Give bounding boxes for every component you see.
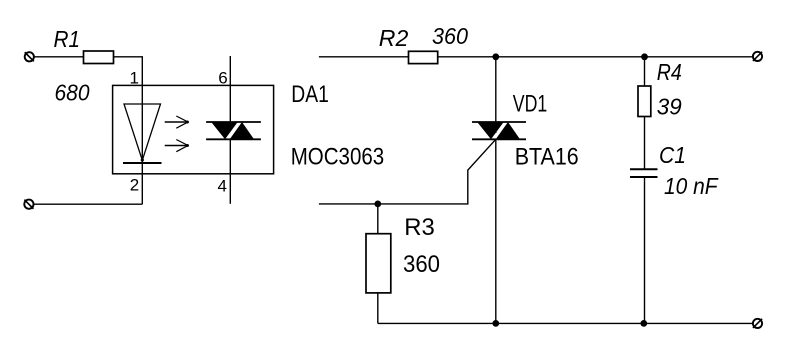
svg-text:R4: R4 (657, 59, 682, 85)
opto photo-triac (206, 120, 261, 141)
pin 4 wire (229, 139, 231, 204)
wire X1 to R1 (34, 56, 84, 58)
optocoupler DA1 box (113, 85, 274, 173)
LED D triangle (124, 104, 161, 160)
wire C1 to bottom rail (644, 177, 646, 323)
svg-text:680: 680 (55, 80, 90, 106)
svg-text:6: 6 (218, 69, 227, 88)
light arrow 1 (165, 116, 189, 128)
svg-text:R3: R3 (404, 214, 435, 241)
junction node (R3 top / gate) (374, 201, 381, 208)
terminal X2 (bottom-left) (24, 200, 33, 209)
triac VD1 (472, 120, 526, 141)
wire VD1 vertical (495, 57, 497, 133)
svg-text:4: 4 (218, 176, 227, 195)
top wire R2 to terminal (438, 56, 753, 58)
gate wire of VD1 (319, 139, 496, 204)
svg-text:360: 360 (403, 251, 440, 278)
terminal X1 (top-left) (25, 52, 34, 61)
resistor R2 (409, 51, 438, 63)
svg-text:MOC3063: MOC3063 (291, 143, 385, 170)
svg-text:R1: R1 (54, 26, 81, 52)
svg-text:39: 39 (657, 93, 682, 119)
capacitor C1 (630, 169, 658, 177)
junction node (VD1 top) (492, 53, 499, 60)
junction node (R4 top) (641, 53, 648, 60)
bottom rail (378, 322, 753, 324)
svg-text:2: 2 (130, 176, 139, 195)
svg-text:DA1: DA1 (291, 81, 329, 108)
junction node (VD1 bottom) (492, 320, 499, 327)
svg-text:10 nF: 10 nF (664, 173, 719, 199)
wire X2 to pin 2 (34, 203, 142, 205)
terminal X3 (top-right) (753, 52, 762, 61)
resistor R3 (366, 234, 391, 293)
wire gate node to R3 (377, 204, 379, 234)
LED cathode bar (123, 162, 162, 164)
svg-text:360: 360 (432, 23, 468, 49)
LED wire through (pin1 to pin2) (141, 85, 143, 204)
svg-text:C1: C1 (659, 142, 686, 168)
wire R4 branch top (644, 57, 646, 86)
top wire left dangling end to R2 (319, 56, 409, 58)
pin 6 wire (229, 56, 231, 122)
svg-text:VD1: VD1 (513, 91, 548, 118)
junction node (C1 bottom) (640, 320, 647, 327)
svg-text:R2: R2 (379, 25, 409, 51)
resistor R1 (84, 51, 114, 64)
svg-text:BTA16: BTA16 (515, 144, 579, 171)
svg-text:1: 1 (130, 68, 139, 87)
wire R4 to C1 (644, 117, 646, 170)
wire R1 to pin 1 (114, 57, 143, 86)
terminal X4 (bottom-right) (753, 319, 762, 328)
resistor R4 (638, 86, 651, 117)
wire R3 bottom to bottom rail (377, 293, 379, 324)
light arrow 2 (165, 140, 189, 152)
